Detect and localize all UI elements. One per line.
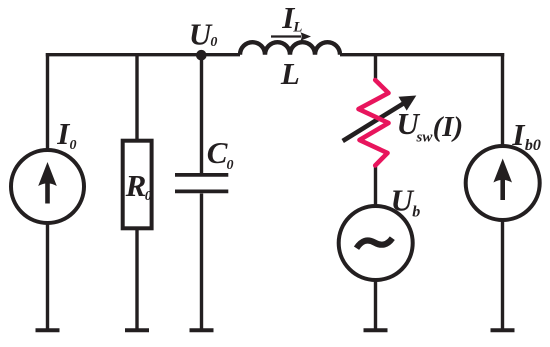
svg-text:0: 0 — [145, 189, 152, 204]
svg-text:0: 0 — [210, 35, 217, 50]
svg-text:(I): (I) — [433, 111, 464, 143]
svg-text:C: C — [207, 135, 228, 170]
svg-text:I: I — [56, 116, 70, 151]
svg-text:L: L — [292, 20, 302, 36]
svg-text:U: U — [391, 183, 415, 218]
svg-text:sw: sw — [416, 129, 434, 145]
svg-text:b0: b0 — [525, 137, 541, 154]
svg-text:0: 0 — [70, 138, 77, 153]
svg-text:R: R — [125, 168, 147, 203]
svg-text:0: 0 — [227, 158, 234, 173]
svg-text:U: U — [189, 17, 213, 52]
svg-text:L: L — [280, 56, 300, 91]
svg-text:I: I — [511, 117, 525, 152]
svg-text:b: b — [412, 204, 420, 221]
